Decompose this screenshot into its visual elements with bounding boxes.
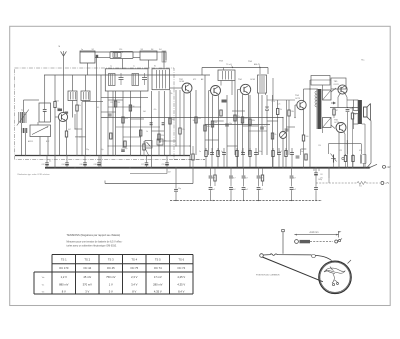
svg-text:120: 120 xyxy=(119,49,122,51)
svg-text:4k7: 4k7 xyxy=(168,172,171,174)
svg-text:TS 2: TS 2 xyxy=(84,257,90,261)
IF transformer T1b xyxy=(81,91,90,101)
wire bias link xyxy=(328,143,361,145)
svg-text:OC45: OC45 xyxy=(250,79,255,81)
resistor R10 xyxy=(143,144,145,150)
rod circle outer xyxy=(319,261,351,293)
wire TS2 collector xyxy=(190,93,192,156)
svg-text:4,25 V: 4,25 V xyxy=(177,275,185,279)
antenna M xyxy=(61,51,64,56)
svg-text:OC 74: OC 74 xyxy=(177,266,185,270)
dimension line 112mm xyxy=(294,234,338,236)
svg-text:Réalisation typ. selon CCIR sc: Réalisation typ. selon CCIR schéma xyxy=(18,173,51,176)
svg-text:OC 75: OC 75 xyxy=(130,266,138,270)
wire loops small xyxy=(332,283,334,285)
resistor R3 xyxy=(76,105,78,111)
switch unit box xyxy=(110,52,133,59)
svg-text:TS 3: TS 3 xyxy=(108,257,114,261)
wire v164 xyxy=(163,91,165,155)
rod circle inner xyxy=(323,262,350,272)
wire h119 xyxy=(130,118,144,120)
svg-text:33k: 33k xyxy=(252,120,255,122)
capacitor Cb0b xyxy=(209,187,213,189)
coil body xyxy=(300,240,311,243)
wire v113 xyxy=(112,91,114,155)
wire pot up xyxy=(282,118,284,132)
ground bus G1 dots xyxy=(25,155,26,156)
electrolytic C60 xyxy=(46,155,48,163)
wire h112 xyxy=(101,111,116,113)
svg-text:45 mV: 45 mV xyxy=(83,275,91,279)
wire TS2 base xyxy=(170,87,182,89)
ferrite coil 1a xyxy=(20,112,22,123)
wire B2 pin xyxy=(148,60,150,69)
capacitor C21 xyxy=(260,126,264,128)
svg-text:POSITION DU CURSEUR: POSITION DU CURSEUR xyxy=(256,274,280,276)
rod bottom edge xyxy=(262,257,323,282)
bandpass C1 xyxy=(119,77,124,79)
resistor R20 xyxy=(195,117,197,123)
svg-text:TENSIONS (Négatives par rappo: TENSIONS (Négatives par rapport au châss… xyxy=(67,233,121,237)
wire B1 pin down xyxy=(87,63,89,75)
wire rail C xyxy=(44,74,210,76)
wire h141 xyxy=(159,140,176,142)
coil end loops xyxy=(335,240,338,243)
wire box links xyxy=(44,75,46,103)
wire h100a xyxy=(108,99,123,101)
resistor R21 xyxy=(204,125,206,131)
capacitor C20 xyxy=(225,123,229,125)
svg-text:8,4 V: 8,4 V xyxy=(178,290,184,294)
svg-text:56: 56 xyxy=(133,106,135,108)
wire v286 xyxy=(286,100,288,155)
ecap C72 xyxy=(315,168,317,173)
svg-text:8k2: 8k2 xyxy=(172,119,175,121)
resistor R24 xyxy=(271,133,273,139)
shield bottom extension xyxy=(174,159,205,161)
box module B2 xyxy=(140,51,157,60)
resistor R13 xyxy=(288,110,290,116)
svg-text:≈7V: ≈7V xyxy=(385,182,390,185)
svg-text:5n: 5n xyxy=(264,126,266,128)
wire h131 xyxy=(152,130,165,132)
svg-text:Vᴇ: Vᴇ xyxy=(42,292,45,294)
svg-text:47n: 47n xyxy=(154,109,157,111)
svg-text:C62: C62 xyxy=(42,164,45,166)
electrolytic C70 xyxy=(166,155,168,163)
capacitor Cb1a xyxy=(230,168,232,176)
page border frame xyxy=(10,26,391,305)
svg-text:TS 4: TS 4 xyxy=(131,257,137,261)
ground bus G1 xyxy=(15,155,190,157)
wire TS1 feed xyxy=(54,75,56,101)
svg-text:1a: 1a xyxy=(110,66,112,68)
wire v235 xyxy=(234,81,236,156)
wire h127b xyxy=(287,126,296,128)
svg-text:2k2: 2k2 xyxy=(118,102,121,104)
wire TS4drv collector xyxy=(303,89,305,101)
output transformer core xyxy=(358,100,362,124)
wire G1 drop xyxy=(189,155,191,168)
capacitor C5 xyxy=(162,122,165,123)
svg-text:3k9: 3k9 xyxy=(193,120,196,122)
trimmer block xyxy=(162,51,166,62)
svg-text:C64: C64 xyxy=(62,164,65,166)
svg-text:5 V: 5 V xyxy=(109,290,113,294)
rod hole xyxy=(312,255,316,258)
wire TS1 collector xyxy=(66,121,68,131)
svg-text:68k: 68k xyxy=(207,126,210,128)
svg-text:82k: 82k xyxy=(125,118,128,120)
svg-text:4n7: 4n7 xyxy=(301,151,304,153)
resistor Rr10 xyxy=(285,151,287,157)
svg-text:120: 120 xyxy=(318,145,321,147)
wire TS4drv base xyxy=(295,104,297,106)
svg-text:50µ: 50µ xyxy=(178,188,181,190)
wire h97 xyxy=(101,97,148,99)
svg-text:2n2: 2n2 xyxy=(293,189,296,191)
wire h131b xyxy=(249,130,268,132)
svg-text:1k: 1k xyxy=(355,114,357,116)
wire switch pin xyxy=(122,59,124,69)
wire tone line xyxy=(130,173,167,175)
oscillator box xyxy=(152,69,170,90)
svg-text:4n7: 4n7 xyxy=(245,178,248,180)
tuned box A xyxy=(39,103,51,122)
resistor R9 xyxy=(169,118,171,124)
ecap C3 xyxy=(121,148,125,150)
wire TS1 base link xyxy=(55,116,58,118)
capacitor Cb3a xyxy=(258,168,260,176)
resistor R1 xyxy=(54,102,56,108)
wire antenna feed xyxy=(63,56,65,75)
volume pot P1 xyxy=(280,132,287,139)
wire step TS1 xyxy=(74,114,76,129)
thermistor R30 xyxy=(333,155,335,163)
wire h100 xyxy=(267,99,295,101)
svg-text:TS 6: TS 6 xyxy=(178,257,184,261)
IF transformer T3 xyxy=(218,70,235,81)
wire v159 xyxy=(158,91,160,155)
resistor R6 xyxy=(129,105,131,111)
wire TS4drv emitter xyxy=(303,109,305,135)
svg-text:TS 1: TS 1 xyxy=(61,257,67,261)
resistor R4 xyxy=(114,101,116,107)
svg-text:1,25: 1,25 xyxy=(277,104,280,106)
resistor R28 xyxy=(220,110,222,116)
wire v205 xyxy=(204,75,206,155)
svg-text:47: 47 xyxy=(336,110,338,112)
electrolytic C62 xyxy=(66,155,68,163)
wire h107r xyxy=(330,107,358,109)
resistor R7 xyxy=(140,130,142,136)
wire v347 xyxy=(347,112,349,168)
driver sec winding b xyxy=(323,118,332,128)
driver transformer core xyxy=(318,89,322,129)
svg-text:50µ: 50µ xyxy=(350,108,353,110)
svg-text:1,2 V: 1,2 V xyxy=(61,275,67,279)
capacitor Cb1b xyxy=(229,187,233,189)
svg-text:TS 5: TS 5 xyxy=(155,257,161,261)
wire rail B ends xyxy=(201,68,203,76)
switch S1 xyxy=(370,164,377,167)
resistor Rr0 xyxy=(205,151,207,157)
wire v250 xyxy=(249,95,251,155)
capacitor C70 xyxy=(175,168,177,189)
svg-text:1k: 1k xyxy=(146,131,148,133)
capacitor Cb2a xyxy=(243,168,245,176)
wire coil gnd xyxy=(21,123,23,155)
transistor TS4 driver xyxy=(297,100,306,109)
svg-text:OC 74: OC 74 xyxy=(154,266,162,270)
resistor R15 xyxy=(333,109,335,115)
svg-text:4,35 V: 4,35 V xyxy=(177,282,185,286)
bandpass box xyxy=(105,69,148,91)
svg-text:1c: 1c xyxy=(133,66,135,68)
wire h57b xyxy=(133,57,140,59)
coil lead terminal xyxy=(295,240,299,244)
resistor Rr8 xyxy=(272,151,274,157)
wire v96 xyxy=(96,58,98,155)
svg-text:OC 170: OC 170 xyxy=(59,266,69,270)
wire h136 xyxy=(75,136,86,138)
svg-text:150: 150 xyxy=(198,118,201,120)
wire v265 xyxy=(266,95,268,107)
wire h107 xyxy=(108,106,141,108)
resistor R11 xyxy=(179,128,181,134)
svg-text:4n7: 4n7 xyxy=(233,178,236,180)
wire TS4 emitter xyxy=(242,94,244,155)
wire coil top xyxy=(23,100,25,112)
wire h127 xyxy=(116,126,160,128)
wire h121b xyxy=(267,120,278,122)
coil dash lead xyxy=(310,241,333,243)
resistor R16 xyxy=(351,113,353,119)
output primary a xyxy=(354,100,359,111)
wire v170 xyxy=(169,90,171,155)
capacitor Cr11 xyxy=(290,152,294,154)
wire h126 xyxy=(243,125,259,127)
svg-text:Mesures pour une tension de ba: Mesures pour une tension de batterie de … xyxy=(67,241,123,244)
svg-text:S3: S3 xyxy=(141,49,143,51)
wire v130 xyxy=(129,91,131,155)
wire v262 xyxy=(261,95,263,155)
svg-text:2n2: 2n2 xyxy=(245,189,248,191)
svg-text:5k6: 5k6 xyxy=(143,111,146,113)
terminal +9V xyxy=(383,165,386,168)
wire speaker down xyxy=(370,121,372,164)
wire TS5 emitter diag xyxy=(338,94,340,97)
transistor TS4if xyxy=(240,84,250,94)
transistor TS1 xyxy=(58,112,67,121)
wire dash 7V xyxy=(316,182,357,184)
resistor R27 xyxy=(124,141,126,147)
resistor R22 xyxy=(234,115,236,121)
node rail B xyxy=(232,67,233,68)
wire TS4 collector xyxy=(248,94,250,155)
svg-text:2n2: 2n2 xyxy=(260,189,263,191)
box driver top xyxy=(311,76,330,86)
resistor R17 (zigzag) xyxy=(357,181,366,184)
capacitor Cb2b xyxy=(242,187,246,189)
capacitor Cb4a xyxy=(291,168,293,176)
svg-text:10k: 10k xyxy=(57,108,60,110)
svg-text:C81: C81 xyxy=(320,174,323,176)
label box TS5 xyxy=(331,78,346,89)
node dot rail A xyxy=(122,51,123,52)
bandpass C2 xyxy=(142,77,147,79)
svg-text:8 V: 8 V xyxy=(62,290,66,294)
svg-text:S4: S4 xyxy=(151,49,153,51)
rod eyelet xyxy=(260,254,264,258)
resistor R32 xyxy=(352,156,354,162)
node rail B drop xyxy=(259,68,261,75)
wire v176top xyxy=(175,90,177,146)
capacitor Cr3 xyxy=(222,152,226,154)
resistor R2 xyxy=(65,131,67,137)
winding tail xyxy=(332,274,338,283)
svg-text:3,4 V: 3,4 V xyxy=(131,282,137,286)
wire v329 xyxy=(328,168,330,179)
svg-text:B12: B12 xyxy=(46,141,49,143)
node dots AGC xyxy=(122,117,123,118)
resistor R23 xyxy=(249,119,251,125)
svg-text:OC 45: OC 45 xyxy=(107,266,115,270)
svg-text:220: 220 xyxy=(161,135,164,137)
node dots mesh xyxy=(107,145,108,146)
wire pot down xyxy=(282,139,284,168)
svg-text:470: 470 xyxy=(245,118,248,120)
resistor Rb3 xyxy=(261,175,263,181)
wire TS6 collector xyxy=(344,132,346,135)
svg-text:18k: 18k xyxy=(291,111,294,113)
diode D1 xyxy=(265,106,269,108)
svg-text:22k: 22k xyxy=(237,116,240,118)
wire v115 xyxy=(115,91,117,155)
svg-text:2n: 2n xyxy=(199,151,201,153)
wire TS3 base xyxy=(209,90,211,92)
rod top edge xyxy=(263,254,311,256)
capacitor C22 xyxy=(285,128,289,130)
wire v365 xyxy=(364,124,366,168)
wire v227 xyxy=(226,95,228,168)
resistor Rb0 xyxy=(214,175,216,181)
wire T3 pins xyxy=(223,68,225,71)
wire v310 xyxy=(309,80,311,168)
svg-text:tuées avec un voltmètre électr: tuées avec un voltmètre électronique GM … xyxy=(67,244,118,247)
wire h140b xyxy=(205,139,219,141)
svg-text:5k: 5k xyxy=(280,109,282,111)
wire h121 xyxy=(213,120,224,122)
svg-text:8 V: 8 V xyxy=(132,290,136,294)
coil arrow xyxy=(17,110,29,126)
transistor TS6 xyxy=(336,123,346,133)
ground bus G2 dots xyxy=(54,167,55,168)
svg-text:50µ: 50µ xyxy=(125,148,128,150)
shield box (dash-dot) xyxy=(15,68,175,160)
resistor R33 xyxy=(110,133,112,139)
resistor R8 xyxy=(158,134,160,140)
svg-text:R40: R40 xyxy=(359,186,362,188)
svg-text:120: 120 xyxy=(110,102,113,104)
svg-text:100µ: 100µ xyxy=(318,179,322,181)
resistor Rr2 xyxy=(217,151,219,157)
svg-text:1 V: 1 V xyxy=(109,282,113,286)
svg-text:10n: 10n xyxy=(229,123,232,125)
capacitor Cr9 xyxy=(277,152,281,154)
winding scribble xyxy=(324,267,345,274)
ground bus G2 xyxy=(45,167,370,169)
antenna pin xyxy=(282,232,284,254)
svg-text:12k: 12k xyxy=(182,129,185,131)
wire trimmer down xyxy=(163,62,165,69)
wire R2 down xyxy=(66,137,68,155)
svg-text:4,35 V: 4,35 V xyxy=(154,290,162,294)
wire TS1 emitter xyxy=(59,121,61,156)
wire T4 pins xyxy=(258,93,260,155)
diode bias D2 xyxy=(331,102,335,104)
ecap C73 xyxy=(313,168,315,172)
wire h137 xyxy=(123,136,141,138)
capacitor Cr5 xyxy=(241,152,245,154)
box module B1 xyxy=(80,51,95,63)
svg-text:≈9V: ≈9V xyxy=(386,166,391,169)
wire v108 xyxy=(107,91,109,155)
table grid xyxy=(52,254,193,256)
bandpass L1 xyxy=(109,74,116,86)
wire TS2 emitter xyxy=(183,93,185,155)
coil tap 1b xyxy=(23,128,25,133)
svg-text:1n: 1n xyxy=(241,151,243,153)
capacitor Cb0a xyxy=(210,168,212,176)
svg-text:2,3 V: 2,3 V xyxy=(131,275,137,279)
svg-text:0,1: 0,1 xyxy=(97,107,99,109)
wire TS4 base xyxy=(238,89,241,91)
wire R1 down xyxy=(54,108,56,168)
svg-text:C68: C68 xyxy=(94,164,97,166)
svg-text:C57: C57 xyxy=(141,164,144,166)
svg-text:4k7: 4k7 xyxy=(68,129,71,131)
svg-text:S2: S2 xyxy=(92,49,94,51)
wire h111 xyxy=(232,110,245,112)
svg-text:125: 125 xyxy=(339,150,342,152)
resistor R14 xyxy=(302,135,304,141)
svg-text:4n7: 4n7 xyxy=(293,178,296,180)
wire trafo top xyxy=(347,99,354,101)
electrolytic C66 xyxy=(98,155,100,163)
IF transformer T1a xyxy=(68,91,77,101)
svg-text:370 mV: 370 mV xyxy=(83,282,92,286)
svg-text:39k: 39k xyxy=(78,105,81,107)
svg-text:25µ: 25µ xyxy=(86,149,89,151)
driver sec winding a xyxy=(323,90,332,100)
svg-text:1e: 1e xyxy=(81,49,83,51)
svg-text:OC 44: OC 44 xyxy=(83,266,91,270)
driver primary loops xyxy=(315,91,317,94)
blob B1 right xyxy=(96,55,98,58)
wire rail A drop xyxy=(165,52,167,60)
wire vol line xyxy=(105,183,193,185)
svg-text:OC75: OC75 xyxy=(295,98,300,100)
bandpass L2 xyxy=(132,74,139,86)
svg-text:2n2: 2n2 xyxy=(279,151,282,153)
capacitor Cb4b xyxy=(290,187,294,189)
svg-text:47n: 47n xyxy=(359,150,362,152)
svg-text:2n2: 2n2 xyxy=(212,189,215,191)
dim end flag xyxy=(338,231,340,238)
wire TS3 collector xyxy=(218,95,220,155)
svg-text:AF115: AF115 xyxy=(28,140,33,143)
